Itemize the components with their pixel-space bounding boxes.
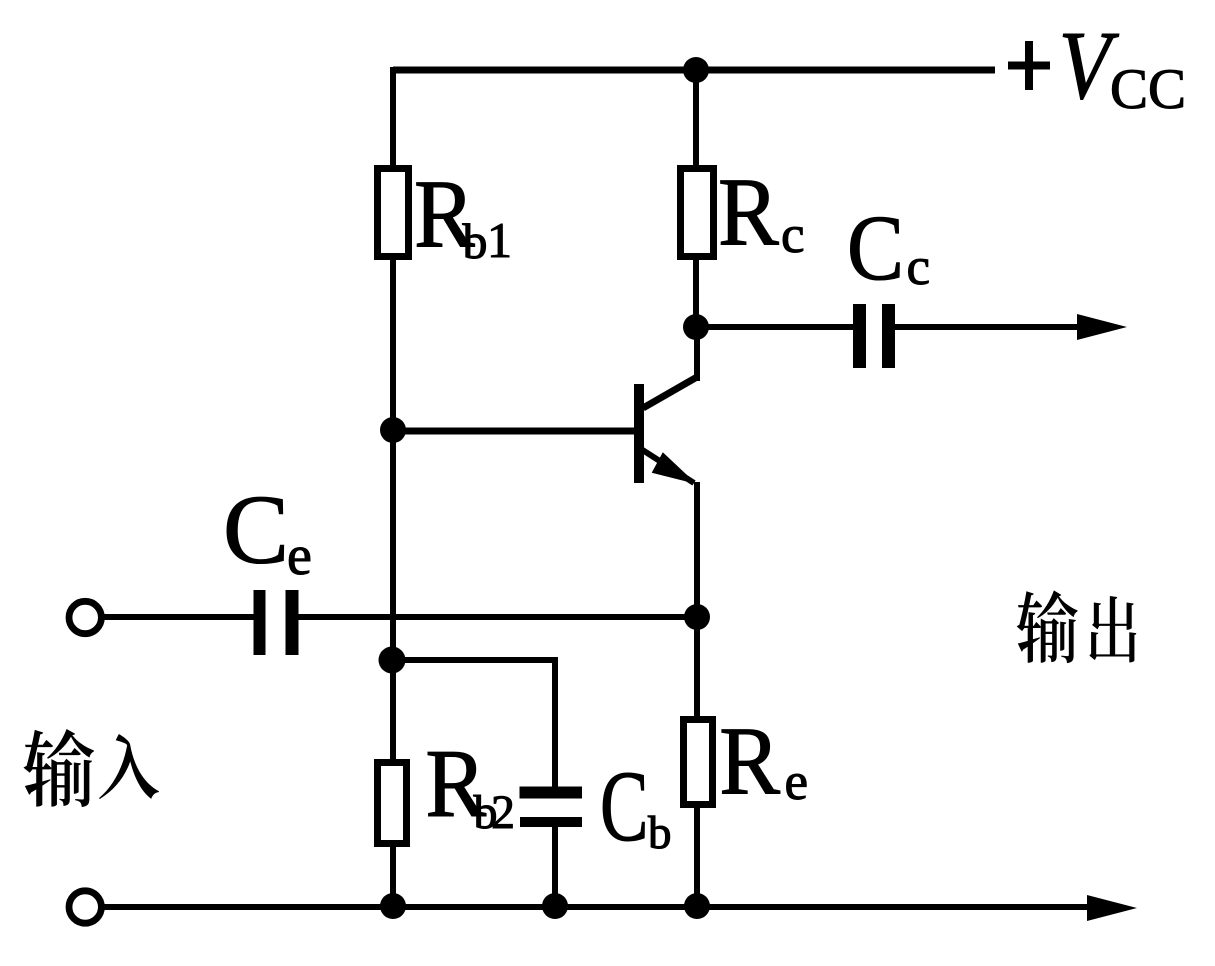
svg-text:b: b [648, 807, 672, 859]
svg-text:R: R [718, 159, 779, 266]
label shuru (input) [24, 729, 159, 807]
node: top rail junction to Rc [683, 57, 709, 83]
resistor Re [684, 720, 713, 805]
resistor Rc [681, 169, 714, 257]
wire: left rail from top to Rb1 [390, 67, 396, 170]
svg-text:1: 1 [487, 212, 512, 268]
node: ground at Cb [542, 893, 568, 919]
svg-text:CC: CC [1110, 58, 1186, 121]
svg-text:R: R [719, 708, 780, 815]
wire: emitter down to node [694, 482, 700, 618]
label Rb1 [414, 161, 512, 269]
svg-text:c: c [907, 238, 931, 296]
label Ce [223, 476, 312, 588]
wire: collector node to Cc [696, 324, 855, 330]
svg-text:e: e [287, 525, 312, 587]
label Rc [718, 159, 805, 266]
capacitor Cc [860, 304, 889, 368]
node: base divider node [380, 417, 406, 443]
resistor Rb2 [378, 763, 407, 844]
arrow: ground rail output [1087, 895, 1137, 921]
label +VCC [1008, 12, 1186, 121]
wire: Rb2 to ground rail [390, 845, 396, 908]
capacitor Cb [520, 793, 583, 823]
wire: Vcc down to Rc [693, 70, 699, 170]
node: collector output node [683, 314, 709, 340]
transistor Q1 base bar [634, 384, 644, 483]
label Cc [847, 197, 930, 300]
wire: base wire to transistor [393, 428, 636, 435]
terminal: input upper [69, 601, 101, 633]
wire: branch node to Cb [392, 657, 555, 787]
node: base branch to Cb [379, 647, 406, 674]
svg-text:C: C [600, 752, 649, 863]
svg-text:C: C [847, 197, 904, 300]
wire: left rail Rb1 to Rb2 [390, 260, 396, 760]
svg-text:c: c [781, 206, 805, 264]
svg-text:2: 2 [491, 786, 515, 839]
node: ground at Re [684, 893, 710, 919]
wire: Cb to ground rail [552, 826, 558, 908]
label Rb2 [425, 730, 515, 839]
capacitor Ce [260, 590, 293, 655]
wire: emitter node to Re [694, 617, 700, 720]
transistor Q1 emitter lead with arrow [641, 449, 697, 484]
svg-text:C: C [223, 476, 289, 585]
resistor Rb1 [378, 169, 409, 257]
label shuchu (output) [1017, 590, 1137, 663]
wire: Rc to collector node [693, 258, 699, 332]
svg-text:b: b [463, 213, 488, 269]
wire: Ce to emitter node [298, 614, 697, 620]
transistor Q1 collector lead [643, 330, 697, 408]
wire: Re to ground rail [694, 804, 700, 908]
wire: Cc to output arrow [895, 314, 1127, 340]
label Cb [600, 752, 672, 863]
terminal: input lower [69, 891, 101, 923]
wire: ground rail [103, 904, 1090, 910]
wire: +Vcc top rail [393, 67, 995, 74]
label Re [719, 708, 808, 815]
svg-text:e: e [785, 753, 809, 811]
wire: input to Ce [104, 614, 254, 620]
node: emitter node [684, 604, 710, 630]
node: ground at Rb2 [380, 893, 406, 919]
